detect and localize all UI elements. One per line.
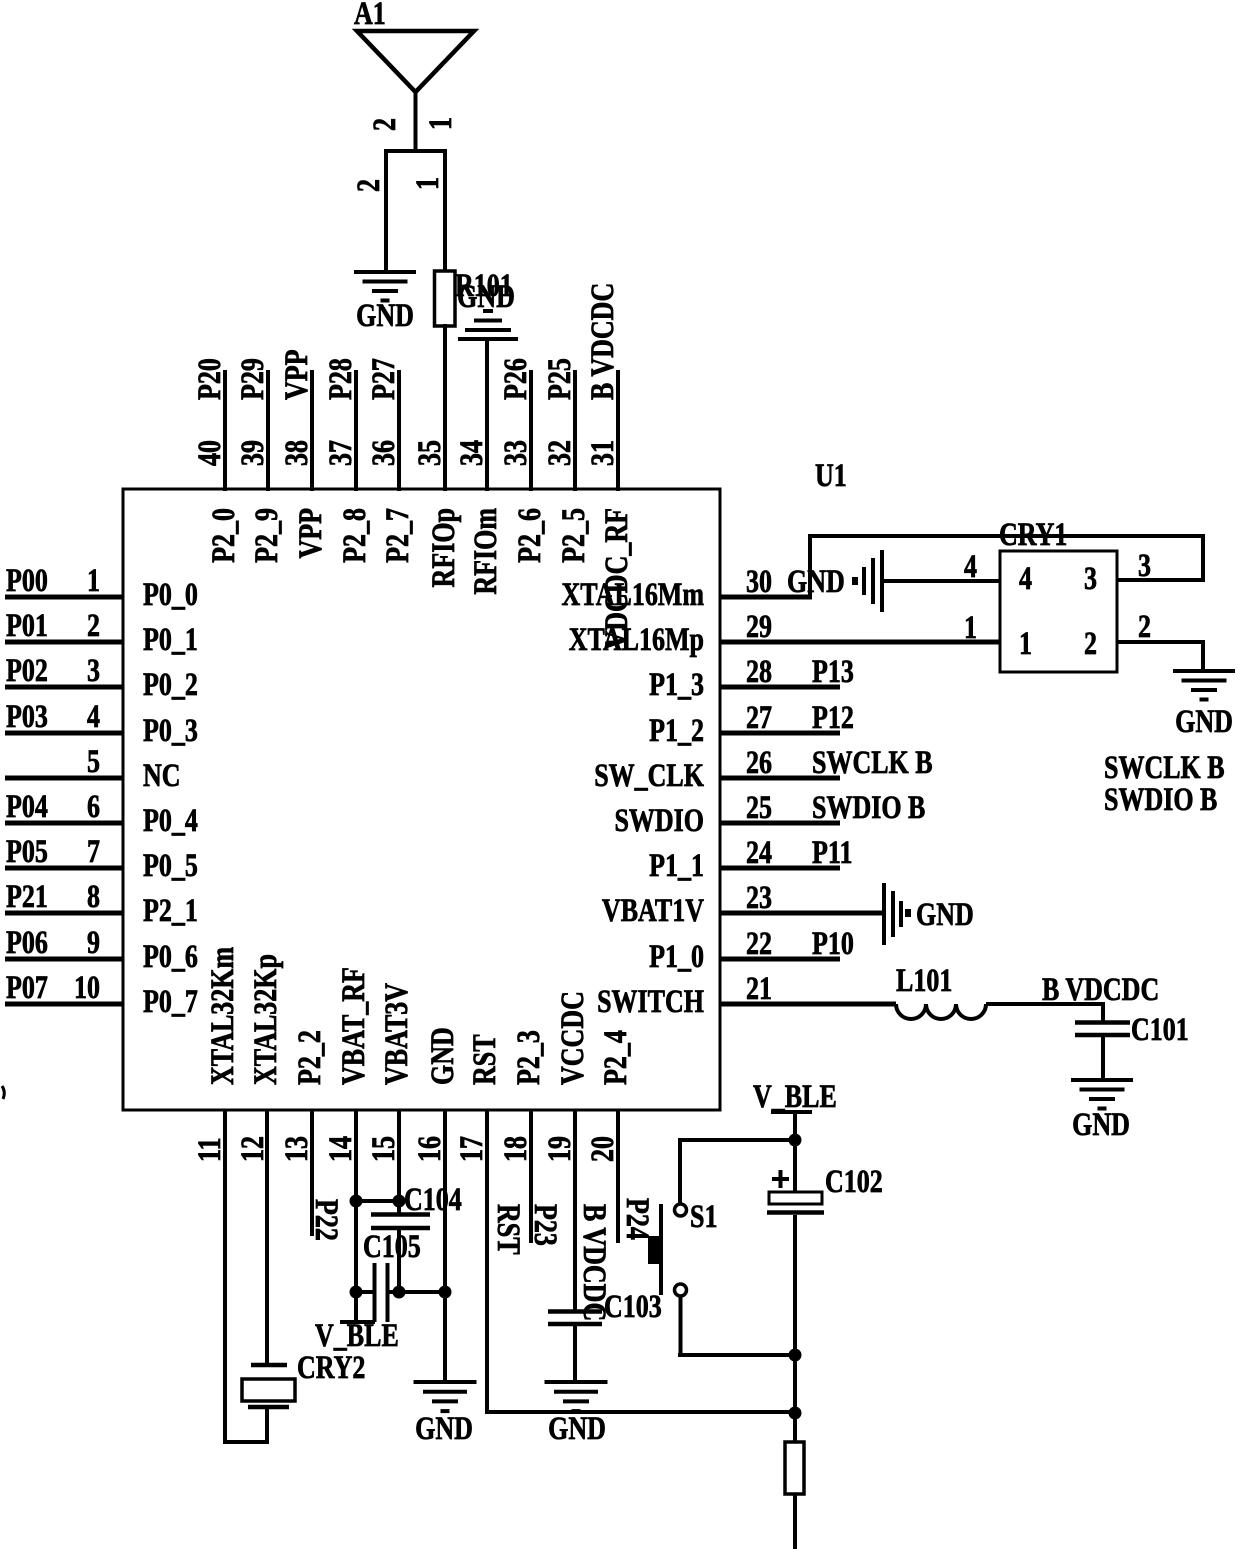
svg-text:VBAT3V: VBAT3V (379, 983, 414, 1085)
svg-text:RFIOm: RFIOm (468, 508, 503, 595)
svg-text:P13: P13 (812, 654, 854, 689)
svg-text:P0_3: P0_3 (143, 713, 198, 748)
svg-text:P25: P25 (542, 358, 577, 400)
svg-text:P1_0: P1_0 (649, 939, 704, 974)
svg-text:B VDCDC: B VDCDC (1042, 972, 1159, 1007)
svg-text:P2_9: P2_9 (249, 508, 284, 563)
svg-text:2: 2 (87, 608, 100, 643)
svg-text:P2_1: P2_1 (143, 893, 198, 928)
svg-text:P0_4: P0_4 (143, 803, 198, 838)
svg-text:20: 20 (585, 1136, 620, 1162)
svg-text:P0_6: P0_6 (143, 939, 198, 974)
svg-text:P21: P21 (6, 879, 48, 914)
svg-text:VCCDC: VCCDC (555, 991, 590, 1085)
svg-text:P20: P20 (192, 358, 227, 400)
svg-text:GND: GND (548, 1411, 606, 1446)
svg-text:P0_1: P0_1 (143, 622, 198, 657)
svg-text:SWDIO: SWDIO (614, 803, 704, 838)
svg-text:4: 4 (964, 549, 977, 584)
svg-text:P29: P29 (235, 358, 270, 400)
svg-text:L101: L101 (896, 963, 952, 998)
svg-text:29: 29 (746, 609, 772, 644)
svg-text:3: 3 (1084, 561, 1097, 596)
svg-text:4: 4 (87, 699, 100, 734)
svg-text:CRY1: CRY1 (999, 517, 1067, 552)
svg-text:2: 2 (1084, 626, 1097, 661)
svg-text:RST: RST (490, 1204, 525, 1255)
svg-text:P05: P05 (6, 834, 48, 869)
svg-text:P2_6: P2_6 (512, 508, 547, 563)
svg-text:SWCLK B: SWCLK B (1104, 750, 1225, 785)
svg-text:14: 14 (323, 1136, 358, 1162)
svg-text:V_BLE: V_BLE (315, 1318, 399, 1353)
svg-text:35: 35 (412, 440, 447, 466)
svg-text:XTAL16Mp: XTAL16Mp (569, 622, 704, 657)
svg-text:VBAT_RF: VBAT_RF (336, 967, 371, 1085)
svg-text:VDCDC_RF: VDCDC_RF (599, 508, 634, 650)
svg-text:P12: P12 (812, 700, 854, 735)
svg-text:P0_2: P0_2 (143, 667, 198, 702)
svg-text:27: 27 (746, 700, 772, 735)
svg-text:33: 33 (498, 440, 533, 466)
svg-text:P1_3: P1_3 (649, 667, 704, 702)
svg-text:22: 22 (746, 926, 772, 961)
svg-text:5: 5 (87, 744, 100, 779)
svg-text:P2_5: P2_5 (556, 508, 591, 563)
svg-text:P2_3: P2_3 (511, 1030, 546, 1085)
svg-text:9: 9 (87, 925, 100, 960)
svg-text:C101: C101 (1131, 1012, 1189, 1047)
svg-text:P07: P07 (6, 970, 48, 1005)
svg-text:30: 30 (746, 564, 772, 599)
svg-text:RST: RST (467, 1034, 502, 1085)
svg-text:1: 1 (1019, 626, 1032, 661)
svg-text:13: 13 (279, 1136, 314, 1162)
svg-text:C103: C103 (604, 1289, 662, 1324)
svg-text:P27: P27 (366, 358, 401, 400)
svg-text:28: 28 (746, 654, 772, 689)
svg-text:SW_CLK: SW_CLK (594, 758, 704, 793)
svg-text:XTAL32Km: XTAL32Km (205, 947, 240, 1085)
svg-text:31: 31 (585, 440, 620, 466)
svg-text:P2_2: P2_2 (292, 1030, 327, 1085)
svg-text:P03: P03 (6, 699, 48, 734)
svg-text:P04: P04 (6, 789, 48, 824)
svg-text:P00: P00 (6, 563, 48, 598)
svg-text:S1: S1 (690, 1199, 717, 1234)
svg-text:VBAT1V: VBAT1V (602, 893, 704, 928)
svg-text:GND: GND (1072, 1107, 1130, 1142)
svg-text:P2_7: P2_7 (380, 508, 415, 563)
svg-text:P2_4: P2_4 (598, 1030, 633, 1085)
svg-text:2: 2 (367, 118, 402, 131)
svg-text:CRY2: CRY2 (297, 1350, 365, 1385)
svg-text:VPP: VPP (279, 349, 314, 400)
svg-text:10: 10 (74, 970, 100, 1005)
svg-text:7: 7 (87, 834, 100, 869)
svg-text:A1: A1 (354, 0, 386, 32)
svg-text:P0_7: P0_7 (143, 984, 198, 1019)
svg-text:19: 19 (542, 1136, 577, 1162)
svg-text:16: 16 (412, 1136, 447, 1162)
svg-text:2: 2 (1138, 609, 1151, 644)
svg-text:37: 37 (323, 440, 358, 466)
svg-text:25: 25 (746, 790, 772, 825)
svg-text:17: 17 (454, 1136, 489, 1162)
svg-text:SWDIO B: SWDIO B (812, 790, 925, 825)
svg-text:SWITCH: SWITCH (597, 984, 704, 1019)
svg-text:GND: GND (425, 1027, 460, 1085)
svg-text:24: 24 (746, 835, 772, 870)
svg-text:C104: C104 (404, 1182, 462, 1217)
svg-text:U1: U1 (815, 458, 847, 493)
svg-text:P1_2: P1_2 (649, 713, 704, 748)
svg-text:34: 34 (454, 440, 489, 466)
svg-text:P2_8: P2_8 (337, 508, 372, 563)
svg-text:P01: P01 (6, 608, 48, 643)
svg-text:3: 3 (87, 653, 100, 688)
svg-text:P1_1: P1_1 (649, 848, 704, 883)
svg-text:2: 2 (351, 179, 386, 192)
svg-text:P0_5: P0_5 (143, 848, 198, 883)
svg-text:P24: P24 (619, 1198, 654, 1240)
svg-text:VPP: VPP (293, 508, 328, 559)
svg-text:P11: P11 (812, 835, 852, 870)
svg-text:32: 32 (542, 440, 577, 466)
svg-text:GND: GND (916, 897, 974, 932)
svg-text:36: 36 (366, 440, 401, 466)
svg-text:GND: GND (415, 1411, 473, 1446)
svg-text:GND: GND (356, 298, 414, 333)
svg-text:8: 8 (87, 879, 100, 914)
svg-text:P28: P28 (323, 358, 358, 400)
svg-text:P10: P10 (812, 926, 854, 961)
svg-text:3: 3 (1138, 548, 1151, 583)
svg-text:1: 1 (423, 117, 458, 130)
svg-text:6: 6 (87, 789, 100, 824)
svg-text:C105: C105 (363, 1229, 421, 1264)
svg-text:15: 15 (366, 1136, 401, 1162)
svg-text:C102: C102 (825, 1164, 883, 1199)
svg-text:21: 21 (746, 971, 772, 1006)
svg-text:P26: P26 (498, 358, 533, 400)
svg-text:40: 40 (192, 440, 227, 466)
svg-text:SWCLK B: SWCLK B (812, 745, 933, 780)
svg-text:B VDCDC: B VDCDC (585, 283, 620, 400)
svg-text:1: 1 (410, 177, 445, 190)
svg-text:SWDIO B: SWDIO B (1104, 782, 1217, 817)
svg-text:P02: P02 (6, 653, 48, 688)
svg-text:RFIOp: RFIOp (426, 508, 461, 587)
svg-text:P0_0: P0_0 (143, 577, 198, 612)
svg-text:NC: NC (143, 758, 181, 793)
svg-text:18: 18 (498, 1136, 533, 1162)
svg-text:GND: GND (787, 564, 845, 599)
svg-text:26: 26 (746, 745, 772, 780)
svg-text:1: 1 (964, 610, 977, 645)
svg-text:P06: P06 (6, 925, 48, 960)
svg-text:38: 38 (279, 440, 314, 466)
svg-text:39: 39 (235, 440, 270, 466)
svg-text:11: 11 (192, 1137, 227, 1162)
svg-text:1: 1 (87, 563, 100, 598)
svg-text:GND: GND (1175, 704, 1233, 739)
svg-text:V_BLE: V_BLE (753, 1079, 837, 1114)
svg-text:P2_0: P2_0 (206, 508, 241, 563)
svg-text:23: 23 (746, 880, 772, 915)
svg-text:4: 4 (1019, 561, 1032, 596)
svg-text:XTAL32Kp: XTAL32Kp (248, 954, 283, 1085)
